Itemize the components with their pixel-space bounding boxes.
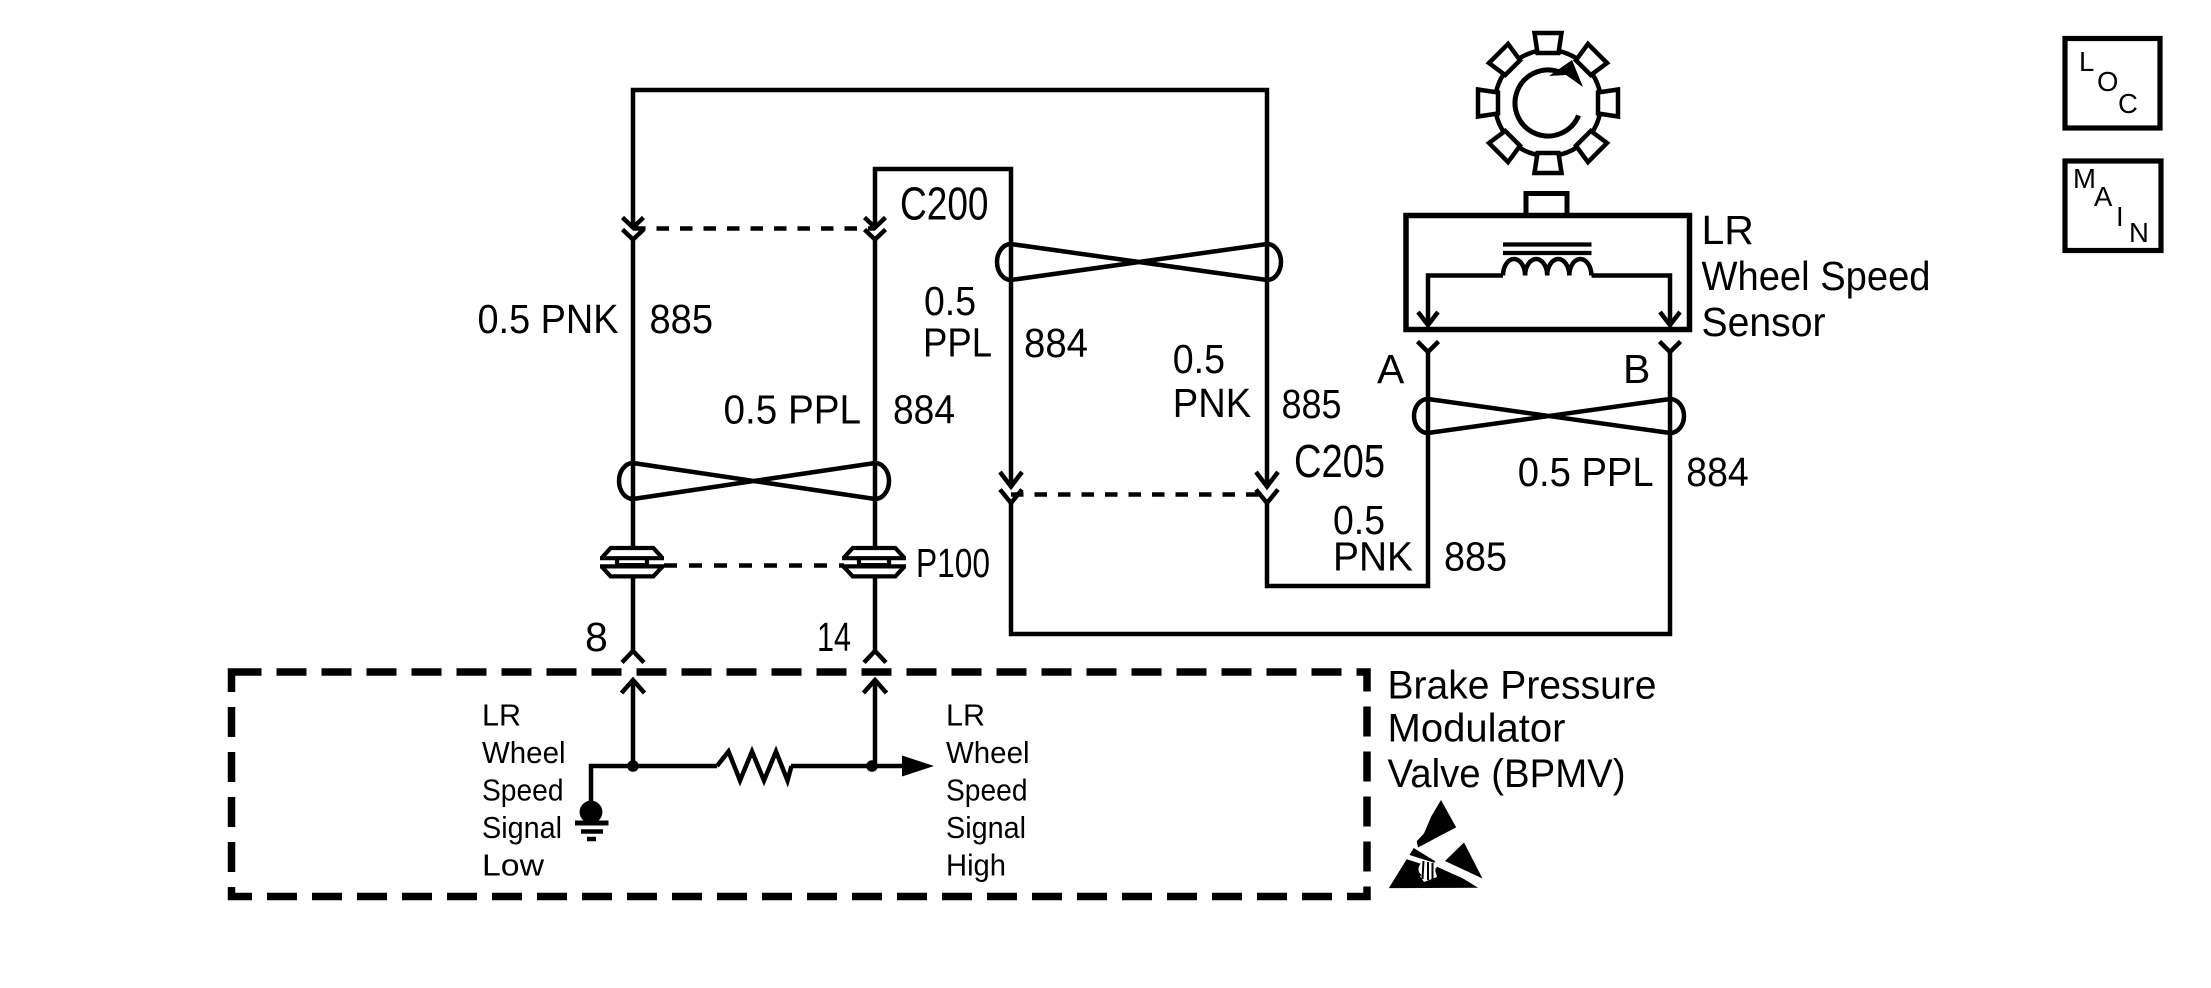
- sensor coil L1: [1503, 259, 1591, 276]
- wire 884: below C205 down and right to sensor B: [1011, 353, 1670, 635]
- svg-text:885: 885: [650, 296, 714, 342]
- svg-text:Valve (BPMV): Valve (BPMV): [1388, 752, 1626, 796]
- BPMV internal bus wire: [591, 766, 904, 801]
- BPMV internal arrow up (signal low, pin 8): [622, 680, 645, 766]
- svg-text:0.5 PNK: 0.5 PNK: [478, 296, 619, 342]
- svg-text:PNK: PNK: [1333, 534, 1413, 580]
- svg-text:M: M: [2073, 163, 2096, 194]
- svg-text:LR: LR: [1702, 207, 1754, 253]
- connector C205 dashed link: [1011, 492, 1267, 497]
- svg-text:14: 14: [817, 614, 851, 660]
- svg-text:O: O: [2097, 66, 2118, 97]
- svg-text:A: A: [2094, 181, 2113, 212]
- twisted pair symbol left (above P100): [619, 463, 889, 499]
- tone wheel gear: [1478, 33, 1618, 173]
- sensor terminal chevron B: [1660, 342, 1681, 353]
- grommet P100 symbol on wire 884: [842, 548, 906, 576]
- svg-text:A: A: [1377, 346, 1405, 392]
- svg-text:LR: LR: [946, 699, 985, 733]
- resistor R (wheel speed signal): [717, 752, 792, 781]
- svg-text:B: B: [1623, 346, 1650, 392]
- wire 885: below C205 down and right to sensor A: [1267, 353, 1428, 587]
- svg-text:L: L: [2079, 46, 2094, 77]
- svg-text:P100: P100: [916, 540, 990, 586]
- svg-text:PNK: PNK: [1173, 380, 1251, 426]
- svg-text:0.5 PPL: 0.5 PPL: [1518, 449, 1654, 495]
- label LR Wheel Speed Signal High: [946, 699, 1030, 883]
- svg-text:Wheel: Wheel: [946, 736, 1030, 770]
- label LR Wheel Speed Sensor: [1702, 207, 1931, 345]
- svg-text:Brake Pressure: Brake Pressure: [1388, 664, 1657, 708]
- svg-text:0.5: 0.5: [924, 278, 976, 324]
- BPMV internal arrow up (signal high, pin 14): [864, 680, 887, 766]
- svg-text:N: N: [2129, 217, 2149, 248]
- svg-text:0.5: 0.5: [1173, 336, 1225, 382]
- connector C205 chevron on wire 884: [1000, 472, 1022, 487]
- sensor core lines: [1503, 245, 1592, 254]
- LOC letters: [2079, 46, 2138, 119]
- MAIN letters: [2073, 163, 2149, 248]
- svg-text:Sensor: Sensor: [1702, 299, 1826, 345]
- svg-text:LR: LR: [482, 699, 521, 733]
- label LR Wheel Speed Signal Low: [482, 699, 566, 883]
- svg-text:C200: C200: [900, 178, 989, 230]
- twisted pair symbol right (below sensor): [1414, 399, 1684, 433]
- LOC box: [2065, 39, 2160, 129]
- twisted pair symbol top (884/885 between C200 and C205): [997, 244, 1281, 280]
- wire 885: vertical above C200 up to top horizontal: [633, 90, 1267, 487]
- svg-text:C205: C205: [1294, 435, 1385, 487]
- svg-text:High: High: [946, 849, 1006, 883]
- svg-text:Wheel: Wheel: [482, 736, 566, 770]
- svg-text:PPL: PPL: [923, 320, 992, 366]
- terminal chevron pin 14: [864, 651, 886, 663]
- svg-text:8: 8: [585, 614, 608, 660]
- junction dot pin 8 bus: [627, 760, 639, 772]
- grommet P100 dashed link: [664, 563, 844, 568]
- sensor pole piece: [1526, 194, 1567, 216]
- svg-text:Speed: Speed: [946, 774, 1028, 808]
- svg-text:Modulator: Modulator: [1388, 707, 1566, 751]
- svg-text:Speed: Speed: [482, 774, 564, 808]
- LR wheel speed sensor box U1: [1406, 216, 1690, 330]
- connector C200 dashed link: [633, 226, 875, 231]
- connector C200 chevron on wire 885: [623, 218, 644, 228]
- wire 885: pin8 vertical below C200: [631, 240, 636, 550]
- svg-text:884: 884: [1024, 320, 1088, 366]
- svg-text:Low: Low: [482, 849, 545, 883]
- ESD warning symbol: [1389, 800, 1484, 888]
- svg-text:Wheel Speed: Wheel Speed: [1702, 253, 1931, 299]
- label Brake Pressure Modulator Valve (BPMV): [1388, 664, 1657, 797]
- gear rotation arrowhead: [1549, 60, 1583, 87]
- gear rotation arrow arc: [1515, 70, 1579, 136]
- svg-text:C: C: [2118, 88, 2138, 119]
- svg-text:885: 885: [1282, 381, 1342, 427]
- arrowhead right on bus: [902, 756, 934, 777]
- wire 884: pin14 vertical below C200: [873, 240, 878, 550]
- BPMV dashed box: [232, 672, 1368, 897]
- connector C200 chevron on wire 884: [865, 218, 886, 228]
- grommet P100 symbol on wire 885: [600, 548, 664, 576]
- sensor internal leads with arrows: [1418, 276, 1680, 326]
- junction dot pin 14 bus: [866, 760, 878, 772]
- wire 884: narrow U loop above C200: [875, 169, 1011, 487]
- svg-text:885: 885: [1444, 534, 1507, 580]
- svg-text:Signal: Signal: [482, 811, 562, 845]
- connector C205 chevron on wire 885: [1256, 472, 1278, 487]
- terminal chevron pin 8: [622, 651, 644, 663]
- svg-text:Signal: Signal: [946, 811, 1026, 845]
- sensor terminal chevron A: [1418, 342, 1439, 353]
- MAIN box: [2065, 161, 2161, 251]
- svg-text:884: 884: [1686, 449, 1748, 495]
- svg-text:I: I: [2116, 201, 2124, 232]
- ground symbol: [575, 801, 609, 839]
- svg-text:884: 884: [893, 387, 955, 433]
- svg-text:0.5 PPL: 0.5 PPL: [724, 387, 862, 433]
